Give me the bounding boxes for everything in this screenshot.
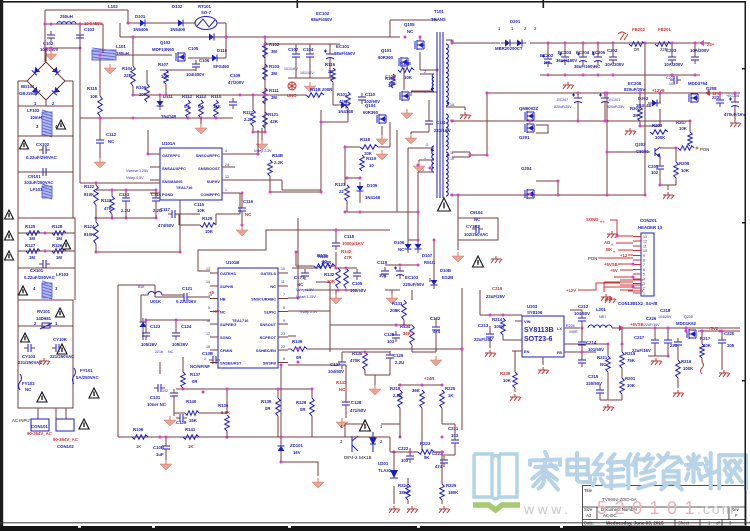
red wire xyxy=(620,284,643,286)
svg-text:1K: 1K xyxy=(448,393,454,398)
ground xyxy=(407,506,418,513)
wire xyxy=(222,166,235,168)
transformer T101 core xyxy=(437,32,443,198)
ground xyxy=(413,162,425,172)
wire xyxy=(217,22,226,24)
ground xyxy=(104,64,116,74)
svg-text:COMPPFC: COMPPFC xyxy=(201,192,221,197)
junction xyxy=(694,74,697,77)
junction xyxy=(547,74,550,77)
svg-text:C112: C112 xyxy=(106,132,117,137)
wire xyxy=(226,431,228,437)
connector CON101 xyxy=(31,419,49,431)
junction xyxy=(297,361,300,364)
warning triangle xyxy=(21,333,30,342)
svg-text:NC: NC xyxy=(594,64,600,69)
wire xyxy=(411,90,434,92)
svg-text:14D681: 14D681 xyxy=(36,316,52,321)
wire xyxy=(241,215,243,226)
pin 11 xyxy=(633,245,641,247)
svg-text:R225: R225 xyxy=(446,483,457,488)
junction xyxy=(701,330,704,333)
svg-text:100K: 100K xyxy=(494,324,505,329)
red wire xyxy=(628,254,633,256)
svg-text:17: 17 xyxy=(206,332,210,336)
svg-text:GATELS: GATELS xyxy=(261,271,277,276)
svg-text:10ner NC: 10ner NC xyxy=(147,402,166,407)
resistor R201 xyxy=(620,378,625,394)
resistor R131a xyxy=(345,185,350,201)
wire xyxy=(154,285,156,297)
junction xyxy=(155,189,158,192)
junction xyxy=(269,191,272,194)
wire xyxy=(288,310,330,312)
wire xyxy=(160,69,196,71)
svg-text:R11B 200R: R11B 200R xyxy=(310,87,333,92)
svg-text:R118: R118 xyxy=(360,137,371,142)
svg-text:HEADER 13: HEADER 13 xyxy=(638,225,663,230)
wire xyxy=(612,43,614,55)
wire xyxy=(597,43,599,55)
resistor R139a xyxy=(276,398,281,416)
ground xyxy=(430,356,442,366)
svg-text:C119: C119 xyxy=(377,260,388,265)
wire xyxy=(80,182,160,184)
svg-text:NC: NC xyxy=(245,212,251,217)
svg-text:R214: R214 xyxy=(492,317,503,322)
junction xyxy=(99,117,102,120)
inductor L101 xyxy=(92,48,116,60)
wire xyxy=(159,362,161,374)
wire xyxy=(419,52,421,58)
svg-text:22uF/16V: 22uF/16V xyxy=(632,348,651,353)
junction xyxy=(436,69,439,72)
svg-text:TRANS: TRANS xyxy=(431,17,446,22)
wire xyxy=(639,121,641,126)
junction xyxy=(175,319,178,322)
junction xyxy=(399,436,402,439)
wire xyxy=(18,232,75,234)
wire xyxy=(335,252,337,266)
resistor R138 xyxy=(225,415,230,431)
wire xyxy=(411,131,429,133)
svg-text:.com: .com xyxy=(697,501,735,517)
svg-text:R132: R132 xyxy=(324,272,335,277)
wire xyxy=(226,389,228,413)
svg-text:16: 16 xyxy=(206,345,210,349)
svg-text:1M: 1M xyxy=(56,236,62,241)
resistor R118 xyxy=(360,145,378,150)
wire xyxy=(316,281,330,283)
svg-text:C117: C117 xyxy=(160,207,171,212)
wire xyxy=(329,62,331,78)
resistor R112 xyxy=(186,100,191,118)
svg-text:EC101: EC101 xyxy=(336,44,350,49)
thermistor RT101 xyxy=(195,17,217,30)
svg-text:SNSCURHBC: SNSCURHBC xyxy=(251,297,276,302)
wire xyxy=(452,151,470,153)
diode D110 xyxy=(208,55,221,62)
wire xyxy=(344,424,346,437)
wire xyxy=(333,104,341,106)
junction xyxy=(159,94,162,97)
wire xyxy=(225,37,227,58)
svg-text:474/50V: 474/50V xyxy=(158,223,174,228)
svg-text:LF103: LF103 xyxy=(56,272,69,277)
wire xyxy=(215,214,217,225)
svg-text:R136: R136 xyxy=(292,339,303,344)
svg-text:1K: 1K xyxy=(188,444,194,449)
wire xyxy=(659,157,661,166)
capacitor CY1E2 xyxy=(472,225,483,233)
svg-text:FB202: FB202 xyxy=(632,27,646,32)
wire xyxy=(454,424,456,440)
svg-text:NC/NF/NF: NC/NF/NF xyxy=(190,364,210,369)
svg-text:R111: R111 xyxy=(269,88,279,93)
ground xyxy=(510,394,521,401)
svg-text:C106: C106 xyxy=(199,58,210,63)
wire xyxy=(389,20,391,37)
wire xyxy=(295,61,297,78)
transformer winding T101 sec lower xyxy=(446,152,448,196)
wire xyxy=(654,347,656,356)
svg-text:R125: R125 xyxy=(202,216,213,221)
resistor R102 xyxy=(263,42,268,58)
pin 4 xyxy=(633,278,641,280)
varistor RV101 xyxy=(40,323,52,329)
wire PFC bus xyxy=(265,43,340,45)
svg-text:+5VSB: +5VSB xyxy=(604,262,618,267)
svg-text:G201: G201 xyxy=(519,135,530,140)
svg-text:CON101: CON101 xyxy=(31,424,48,429)
wire xyxy=(191,296,210,298)
resistor R107 xyxy=(164,70,169,84)
wire xyxy=(452,120,607,122)
wire xyxy=(252,95,254,110)
svg-text:Vstep:0.5V: Vstep:0.5V xyxy=(126,176,144,180)
resistor R208 xyxy=(678,146,694,151)
resistor R117 xyxy=(251,110,256,126)
wire xyxy=(385,289,400,291)
pin 9 xyxy=(633,254,641,256)
junction xyxy=(429,167,432,170)
svg-text:C218: C218 xyxy=(660,308,671,313)
svg-text:820uF/25V: 820uF/25V xyxy=(554,105,572,109)
svg-text:R125: R125 xyxy=(25,224,36,229)
svg-text:A3: A3 xyxy=(586,513,592,518)
junction xyxy=(335,267,338,270)
transistor Q205 xyxy=(687,329,696,339)
svg-text:0R: 0R xyxy=(192,379,198,384)
junction xyxy=(182,388,185,391)
wire xyxy=(142,331,144,340)
wire xyxy=(345,423,365,425)
svg-text:42K: 42K xyxy=(270,119,279,124)
wire xyxy=(221,57,226,59)
svg-text:5: 5 xyxy=(208,306,210,310)
wire xyxy=(434,451,444,453)
diode D111 xyxy=(157,97,164,110)
resistor R203 xyxy=(650,130,668,135)
wire xyxy=(162,294,184,296)
junction xyxy=(675,147,678,150)
svg-text:10K: 10K xyxy=(404,75,413,80)
wire xyxy=(95,183,97,185)
ground xyxy=(336,418,348,428)
svg-text:U203: U203 xyxy=(527,304,538,309)
svg-text:18KF: 18KF xyxy=(399,490,410,495)
svg-text:+5V: +5V xyxy=(610,268,618,273)
junction xyxy=(469,154,472,157)
svg-text:C107: C107 xyxy=(288,47,299,52)
wire xyxy=(216,213,240,215)
ground xyxy=(460,112,471,119)
wire xyxy=(18,136,73,172)
resistor R132a xyxy=(336,268,341,288)
svg-text:C126: C126 xyxy=(393,353,404,358)
wire xyxy=(210,336,218,338)
svg-text:1N5406: 1N5406 xyxy=(133,27,149,32)
wire xyxy=(391,290,393,294)
junction xyxy=(667,355,670,358)
junction xyxy=(393,451,396,454)
wire xyxy=(607,344,609,356)
junction xyxy=(264,36,267,39)
ground xyxy=(195,124,207,134)
wire xyxy=(210,310,218,312)
wire xyxy=(119,23,121,37)
wire xyxy=(648,355,668,357)
net arrow +5VSB xyxy=(619,325,624,331)
svg-text:C220: C220 xyxy=(724,331,735,336)
transformer winding T101 sec upper xyxy=(446,114,448,150)
transformer winding T101 primary xyxy=(446,44,448,106)
resistor R121 xyxy=(263,112,268,128)
wire xyxy=(378,146,390,148)
svg-text:NC: NC xyxy=(600,362,606,367)
junction xyxy=(557,194,560,197)
resistor R123 xyxy=(110,196,115,214)
wire xyxy=(116,54,172,56)
wire xyxy=(698,330,740,332)
svg-text:C215: C215 xyxy=(588,374,599,379)
wire xyxy=(452,156,470,158)
svg-text:1: 1 xyxy=(55,321,58,326)
wire xyxy=(173,400,175,416)
svg-text:470K: 470K xyxy=(350,358,361,363)
warning triangle xyxy=(62,240,71,249)
ground xyxy=(45,50,57,60)
svg-text:C207: C207 xyxy=(666,76,675,80)
wire xyxy=(18,105,73,107)
svg-text:RT101: RT101 xyxy=(198,4,212,9)
warning triangle xyxy=(5,231,14,240)
capacitor EC202 xyxy=(542,55,552,68)
svg-text:www.: www. xyxy=(523,501,571,517)
wire xyxy=(210,285,218,287)
warning triangle xyxy=(57,344,67,354)
winding polarity dot xyxy=(447,102,450,105)
watermark char xiu xyxy=(625,454,655,488)
wire xyxy=(419,58,421,70)
wire xyxy=(564,343,608,345)
wire xyxy=(188,57,208,59)
wire xyxy=(292,267,318,269)
svg-text:C124: C124 xyxy=(181,324,192,329)
wire xyxy=(581,349,583,358)
svg-text:CY1E2: CY1E2 xyxy=(466,224,480,229)
wire xyxy=(564,351,596,353)
svg-text:NC: NC xyxy=(25,387,31,392)
transistor Q201a xyxy=(525,111,534,121)
capacitor C117 xyxy=(168,210,179,218)
wire xyxy=(280,365,282,437)
wire xyxy=(419,37,421,41)
svg-text:36uF/160V: 36uF/160V xyxy=(574,64,595,69)
ground xyxy=(563,82,574,89)
svg-text:C111: C111 xyxy=(436,120,446,125)
ground xyxy=(601,294,612,301)
junction xyxy=(125,217,128,220)
svg-text:D10B: D10B xyxy=(440,268,451,273)
svg-text:2: 2 xyxy=(424,70,426,74)
warning triangle xyxy=(37,392,47,402)
wire xyxy=(547,43,549,57)
wire xyxy=(604,104,606,121)
wire xyxy=(442,454,455,456)
wire xyxy=(329,311,331,325)
junction xyxy=(659,92,662,95)
capacitor C202 xyxy=(609,53,617,64)
wire xyxy=(240,94,265,96)
svg-text:SOND: SOND xyxy=(586,217,598,222)
wire xyxy=(17,106,19,136)
svg-text:250uH: 250uH xyxy=(60,14,73,19)
wire xyxy=(435,334,437,352)
svg-text:42K: 42K xyxy=(339,99,348,104)
wire xyxy=(564,327,580,329)
resistor R219 xyxy=(420,390,425,408)
svg-text:Vstep:1.3V: Vstep:1.3V xyxy=(296,288,314,292)
svg-text:R126: R126 xyxy=(52,243,63,248)
wire xyxy=(599,397,601,400)
svg-text:R103: R103 xyxy=(269,64,280,69)
svg-text:104: 104 xyxy=(379,273,387,278)
svg-text:C213: C213 xyxy=(478,323,489,328)
watermark char liao xyxy=(686,453,717,488)
svg-text:Q205: Q205 xyxy=(684,315,693,319)
capacitor C126 xyxy=(386,351,394,362)
svg-text:820uF/25V: 820uF/25V xyxy=(607,105,625,109)
junction xyxy=(50,23,53,26)
svg-text:C222: C222 xyxy=(398,446,409,451)
svg-text:103uF/250VAC: 103uF/250VAC xyxy=(24,180,54,185)
svg-text:NC: NC xyxy=(389,81,395,86)
svg-text:0.1: 0.1 xyxy=(184,104,191,109)
junction xyxy=(419,36,422,39)
svg-text:105/26V: 105/26V xyxy=(172,342,188,347)
capacitor C104 xyxy=(192,60,200,71)
resistor R130 xyxy=(318,264,335,269)
wire xyxy=(257,130,259,140)
capacitor C109 xyxy=(229,98,237,109)
junction xyxy=(489,314,492,317)
junction xyxy=(689,120,692,123)
svg-text:EC205: EC205 xyxy=(592,50,606,55)
svg-text:R140: R140 xyxy=(186,399,197,404)
wire xyxy=(675,148,677,162)
wire xyxy=(125,205,127,218)
red wire xyxy=(628,290,643,292)
wire xyxy=(99,118,101,140)
svg-text:PON: PON xyxy=(588,256,597,261)
capacitor C128 xyxy=(342,398,350,409)
svg-text:1N4148: 1N4148 xyxy=(338,109,354,114)
junction xyxy=(461,348,464,351)
wire xyxy=(150,192,160,194)
junction xyxy=(632,276,635,279)
wire xyxy=(346,201,348,212)
svg-text:FB201: FB201 xyxy=(658,27,672,32)
capacitor EC207 xyxy=(572,94,582,107)
junction xyxy=(557,180,560,183)
svg-text:R226: R226 xyxy=(566,324,575,328)
svg-text:Size: Size xyxy=(584,507,593,512)
inductor L201 xyxy=(588,325,612,328)
svg-text:NC: NC xyxy=(108,139,114,144)
wire xyxy=(412,351,436,353)
svg-text:2K: 2K xyxy=(633,113,639,118)
diode ZD101 zener xyxy=(278,442,285,455)
wire xyxy=(96,189,156,191)
svg-text:R14B: R14B xyxy=(272,153,283,158)
svg-text:C10B: C10B xyxy=(385,74,396,79)
svg-text:TEA1716: TEA1716 xyxy=(176,185,193,190)
wire xyxy=(188,117,233,119)
ground xyxy=(452,252,464,262)
wire xyxy=(278,285,288,287)
svg-text:Q203: Q203 xyxy=(635,142,646,147)
pin 10 xyxy=(633,250,641,252)
warning triangle xyxy=(20,140,29,149)
wire xyxy=(469,152,471,157)
junction xyxy=(335,229,338,232)
resistor R137 xyxy=(181,372,186,388)
wire xyxy=(18,80,27,82)
svg-text:R128: R128 xyxy=(52,224,63,229)
wire xyxy=(515,320,522,322)
svg-text:9: 9 xyxy=(283,319,285,323)
junction xyxy=(226,388,229,391)
junction xyxy=(127,22,130,25)
svg-text:8: 8 xyxy=(283,306,285,310)
svg-text:6: 6 xyxy=(643,268,645,272)
wire xyxy=(599,384,601,390)
junction xyxy=(441,436,444,439)
junction xyxy=(280,436,283,439)
junction xyxy=(399,384,402,387)
resistor R106b xyxy=(391,74,396,88)
junction xyxy=(297,348,300,351)
junction xyxy=(344,211,347,214)
capacitor C221 xyxy=(451,436,459,447)
warning triangle xyxy=(5,251,14,260)
wire xyxy=(165,84,167,95)
svg-text:+12V8: +12V8 xyxy=(652,88,665,93)
svg-text:C104: C104 xyxy=(303,47,314,52)
svg-text:CY103: CY103 xyxy=(22,354,36,359)
wire xyxy=(155,296,184,298)
